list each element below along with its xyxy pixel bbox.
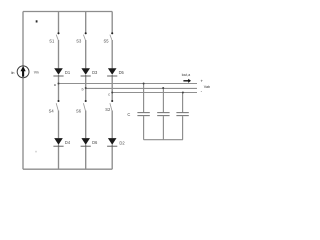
svg-text:S1: S1 xyxy=(49,39,55,44)
svg-text:C: C xyxy=(127,112,130,117)
svg-text:Iin: Iin xyxy=(11,71,15,75)
svg-text:Vab: Vab xyxy=(204,85,210,89)
svg-text:a: a xyxy=(54,83,56,87)
svg-text:D1: D1 xyxy=(65,70,71,75)
svg-text:D4: D4 xyxy=(65,140,71,145)
svg-text:D2: D2 xyxy=(119,141,125,146)
svg-text:S4: S4 xyxy=(49,109,55,114)
svg-text:D5: D5 xyxy=(119,70,125,75)
svg-text:c: c xyxy=(108,92,110,96)
svg-text:S2: S2 xyxy=(105,107,111,112)
svg-text:b: b xyxy=(82,88,84,92)
svg-text:Vin: Vin xyxy=(34,71,39,75)
svg-text:S3: S3 xyxy=(76,39,82,44)
svg-text:D6: D6 xyxy=(92,140,98,145)
svg-text:D3: D3 xyxy=(92,70,98,75)
svg-text:S6: S6 xyxy=(76,109,82,114)
svg-text:Iout,a: Iout,a xyxy=(182,73,191,77)
svg-text:S5: S5 xyxy=(104,39,110,44)
svg-text:+: + xyxy=(200,78,203,83)
